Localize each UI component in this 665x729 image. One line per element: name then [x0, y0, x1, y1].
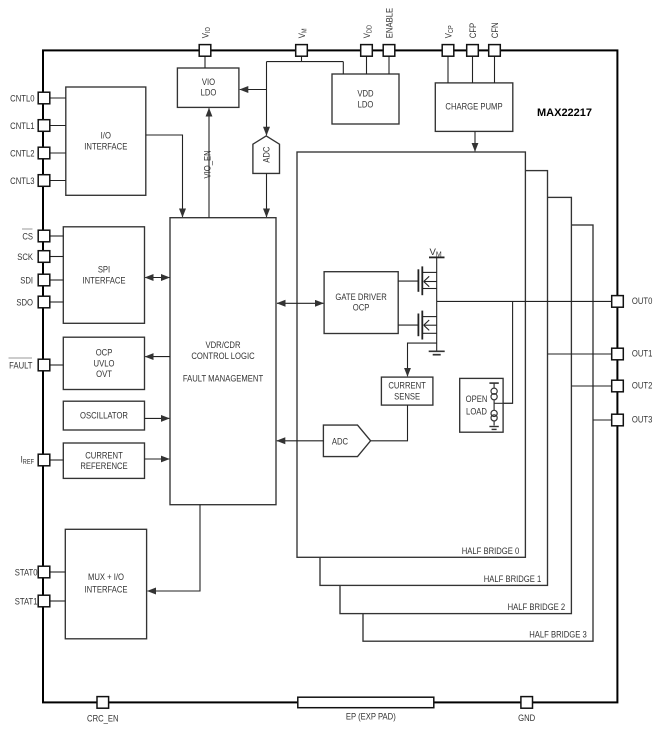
wire VIO pin to VIO LDO [204, 56, 206, 68]
wire CNTL0 stub [50, 97, 66, 99]
svg-text:CFN: CFN [489, 22, 500, 38]
pin STAT0 [38, 566, 50, 578]
wire IREF stub [50, 459, 64, 461]
pin CFN [489, 45, 501, 57]
pin SDO [38, 296, 50, 308]
svg-text:SPI: SPI [98, 264, 110, 275]
pin CNTL2 [38, 147, 50, 159]
wire I/O INTERFACE to control logic [146, 135, 183, 217]
svg-text:CHARGE PUMP: CHARGE PUMP [445, 101, 502, 112]
block SPI INTERFACE [63, 227, 144, 323]
block VIO LDO [177, 68, 239, 107]
svg-text:VCP: VCP [443, 25, 456, 38]
svg-text:OUT2: OUT2 [632, 380, 653, 391]
wire STAT0 stub [50, 571, 65, 573]
wire STAT1 stub [50, 600, 65, 602]
svg-text:I/O: I/O [101, 130, 111, 141]
wire VM pin down [301, 56, 303, 61]
svg-text:VDD: VDD [357, 88, 373, 99]
wire CNTL1 stub [50, 125, 66, 127]
half-bridge block HALF BRIDGE 2 [340, 197, 571, 613]
pin VIO [199, 45, 211, 57]
block OCP UVLO OVT [63, 337, 144, 389]
svg-text:INTERFACE: INTERFACE [84, 141, 127, 152]
svg-text:CFP: CFP [467, 23, 478, 39]
wire VCP pin to CHARGE PUMP [447, 56, 449, 83]
wire ADC to control logic [277, 440, 324, 442]
wire CFP pin to CHARGE PUMP [472, 56, 474, 83]
svg-text:SCK: SCK [17, 251, 33, 262]
pin EP exposed pad [298, 697, 434, 708]
svg-text:FAULT: FAULT [9, 359, 33, 370]
svg-text:EP (EXP PAD): EP (EXP PAD) [346, 711, 396, 722]
svg-text:UVLO: UVLO [94, 357, 115, 368]
pin CNTL1 [38, 120, 50, 132]
labels of half-bridge blocks [462, 545, 587, 640]
svg-text:CURRENT: CURRENT [388, 380, 426, 391]
pin OUT1 [612, 348, 624, 360]
svg-text:HALF BRIDGE 0: HALF BRIDGE 0 [462, 545, 520, 556]
wire VIO_EN control logic to VIO LDO [208, 108, 210, 218]
svg-text:SDO: SDO [16, 296, 33, 307]
half-bridge block HALF BRIDGE 1 [320, 171, 548, 586]
pin CS [38, 230, 50, 242]
svg-text:ADC: ADC [332, 435, 348, 446]
pin CNTL3 [38, 175, 50, 187]
svg-text:CS: CS [22, 230, 33, 241]
wire CNTL2 stub [50, 152, 66, 154]
wire CS stub [50, 235, 64, 237]
svg-text:OSCILLATOR: OSCILLATOR [80, 410, 128, 421]
svg-text:VIO_EN: VIO_EN [202, 150, 213, 178]
wire VM rail to ADC pentagon [266, 62, 268, 136]
svg-text:LDO: LDO [201, 87, 217, 98]
svg-text:OVT: OVT [96, 368, 112, 379]
block VDR/CDR CONTROL LOGIC / FAULT MANAGEMENT [170, 218, 276, 505]
pin FAULT [38, 359, 50, 371]
block VDD LDO [332, 74, 399, 124]
pin OUT3 [612, 414, 624, 426]
svg-text:HALF BRIDGE 3: HALF BRIDGE 3 [529, 629, 587, 640]
wire gate lead high-side [398, 280, 418, 282]
wire SDO stub [50, 301, 64, 303]
svg-text:LOAD: LOAD [466, 405, 487, 416]
block CURRENT SENSE [381, 377, 433, 405]
ADC pentagon (top, from VM) [253, 136, 280, 174]
pin OUT2 [612, 380, 624, 392]
overline for FAULT (active low) [9, 357, 33, 359]
svg-text:OUT1: OUT1 [632, 348, 653, 359]
ground symbol (open load) [489, 427, 498, 430]
svg-text:SENSE: SENSE [394, 390, 420, 401]
VM supply of half bridge [429, 257, 445, 301]
pin CNTL0 [38, 92, 50, 104]
svg-text:OCP: OCP [353, 302, 370, 313]
open load current sources I1 I2 [489, 383, 512, 425]
block OSCILLATOR [63, 401, 144, 430]
svg-text:STAT0: STAT0 [15, 566, 38, 577]
svg-text:GATE DRIVER: GATE DRIVER [335, 291, 386, 302]
chip outer boundary [43, 50, 617, 702]
svg-text:FAULT MANAGEMENT: FAULT MANAGEMENT [183, 373, 264, 384]
pin STAT1 [38, 595, 50, 607]
pin labels bottom [87, 711, 535, 724]
low-side MOSFET Q2 [418, 301, 436, 350]
svg-text:OUT0: OUT0 [632, 295, 653, 306]
wire ENABLE pin to VDD LDO [388, 56, 390, 74]
wire VM rail to VDD LDO [342, 62, 344, 74]
pin SDI [38, 274, 50, 286]
pin OUT0 [612, 296, 624, 308]
pin IREF [38, 454, 50, 466]
svg-text:LDO: LDO [358, 99, 374, 110]
wire output node to OPEN LOAD [503, 301, 513, 403]
block CHARGE PUMP [435, 83, 513, 131]
svg-text:CNTL3: CNTL3 [10, 175, 34, 186]
block I/O INTERFACE [66, 87, 146, 195]
wire output node to OUT0 [437, 300, 612, 302]
wire FAULT stub [50, 364, 64, 366]
wire HALF BRIDGE 1 to OUT1 [548, 353, 612, 355]
pin GND [521, 697, 533, 709]
svg-text:INTERFACE: INTERFACE [82, 275, 125, 286]
svg-text:ENABLE: ENABLE [384, 8, 395, 38]
pin labels right [632, 295, 653, 425]
svg-text:HALF BRIDGE 2: HALF BRIDGE 2 [508, 601, 566, 612]
svg-text:STAT1: STAT1 [15, 595, 38, 606]
wire control logic to MUX [148, 505, 201, 591]
pin labels left [9, 92, 37, 606]
pin VDD [361, 45, 373, 57]
svg-text:SDI: SDI [20, 274, 33, 285]
svg-text:INTERFACE: INTERFACE [84, 584, 127, 595]
wire VM rail to VIO LDO (arrow left) [240, 89, 267, 91]
svg-text:VM: VM [296, 28, 309, 38]
svg-text:GND: GND [518, 712, 535, 723]
pin ENABLE [383, 45, 395, 57]
svg-text:VDD: VDD [361, 25, 374, 39]
svg-text:OCP: OCP [96, 347, 113, 358]
wire CURRENT SENSE to ADC [371, 405, 408, 441]
ADC pentagon (bottom, to control logic) [323, 425, 370, 457]
svg-text:CNTL2: CNTL2 [10, 147, 34, 158]
overline for CS (active low) [22, 228, 33, 230]
wire ADC pentagon to control logic [266, 173, 268, 217]
wire CHARGE PUMP to HALF BRIDGE 0 [474, 131, 476, 151]
svg-text:CURRENT: CURRENT [85, 449, 123, 460]
wire control logic to OCP UVLO OVT [145, 356, 170, 358]
wire HALF BRIDGE 3 to OUT3 [593, 419, 612, 421]
svg-text:MUX + I/O: MUX + I/O [88, 571, 124, 582]
block MUX + I/O INTERFACE [65, 529, 146, 639]
block GATE DRIVER OCP [324, 272, 398, 334]
block texts [80, 76, 592, 595]
svg-text:VIO: VIO [202, 76, 215, 87]
pin CFP [467, 45, 479, 57]
block OPEN LOAD [460, 378, 503, 432]
svg-text:HALF BRIDGE 1: HALF BRIDGE 1 [484, 573, 542, 584]
pin VM [296, 45, 308, 57]
pin CRC_EN [97, 697, 109, 709]
wire source to CURRENT SENSE [408, 343, 437, 376]
wire CURRENT REFERENCE to control logic [145, 458, 170, 460]
wire HALF BRIDGE 2 to OUT2 [571, 385, 611, 387]
wire SCK stub [50, 256, 64, 258]
wire VM horizontal rail [267, 61, 344, 63]
svg-text:CRC_EN: CRC_EN [87, 713, 119, 724]
wire SDI stub [50, 279, 64, 281]
svg-text:CNTL1: CNTL1 [10, 120, 34, 131]
svg-text:CNTL0: CNTL0 [10, 92, 34, 103]
wire SPI to control logic (bidirectional) [145, 277, 169, 279]
pin SCK [38, 251, 50, 263]
block CURRENT REFERENCE [63, 443, 144, 478]
ground symbol (half bridge) [429, 351, 445, 354]
svg-text:VIO: VIO [200, 27, 213, 38]
high-side MOSFET Q1 [418, 266, 436, 295]
wire CFN pin to CHARGE PUMP [494, 56, 496, 83]
svg-text:REFERENCE: REFERENCE [80, 460, 128, 471]
wire control logic to GATE DRIVER [277, 302, 323, 304]
svg-text:CONTROL LOGIC: CONTROL LOGIC [191, 350, 254, 361]
pin VCP [442, 45, 454, 57]
wire open load junction to right [494, 402, 512, 404]
svg-text:VDR/CDR: VDR/CDR [206, 339, 241, 350]
wire VDD pin to VDD LDO [366, 56, 368, 74]
wire OSCILLATOR to control logic [145, 417, 170, 419]
svg-text:OPEN: OPEN [466, 393, 488, 404]
pin labels top (rotated) [200, 8, 501, 38]
half-bridge block HALF BRIDGE 0 [297, 152, 525, 557]
svg-text:OUT3: OUT3 [632, 414, 653, 425]
wire gate lead low-side [398, 324, 418, 326]
svg-text:IREF: IREF [21, 454, 34, 467]
wire CNTL3 stub [50, 180, 66, 182]
svg-text:ADC: ADC [261, 147, 272, 163]
half-bridge block HALF BRIDGE 3 [363, 225, 593, 641]
svg-text:MAX22217: MAX22217 [537, 107, 592, 119]
